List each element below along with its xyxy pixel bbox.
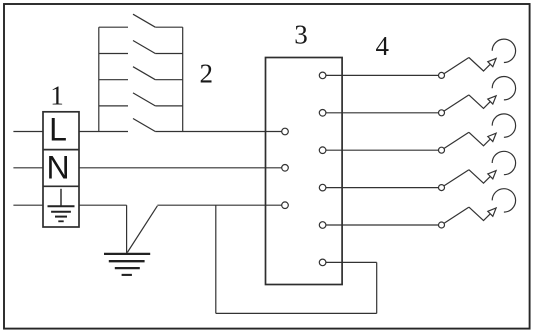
input terminal 3-L [282, 128, 289, 135]
load loop 1 [469, 39, 516, 71]
switch bank 2 left bus wire [98, 27, 100, 131]
switch 2-1 [99, 14, 183, 27]
input terminal 3-N [282, 165, 289, 172]
wire ground diagonal [127, 206, 157, 253]
svg-text:4: 4 [376, 31, 390, 61]
switch bank 2 right bus wire [182, 27, 184, 131]
load loop 2 [469, 77, 516, 109]
load loop 3 [469, 114, 516, 146]
switch 4-4 [439, 170, 469, 191]
terminal PE symbol [48, 189, 75, 222]
wire output 4 [326, 187, 438, 189]
label 4 [376, 31, 390, 61]
label 1 [50, 81, 64, 111]
label 3 [294, 20, 308, 50]
switch 4-3 [439, 132, 469, 153]
wire N row [13, 167, 281, 169]
terminal N [46, 149, 69, 185]
wire output 5 [326, 224, 438, 226]
input terminal 3-PE [282, 202, 289, 209]
terminal L [49, 112, 67, 148]
svg-text:1: 1 [50, 81, 64, 111]
wire return loop (PE row to output terminal 6) [216, 205, 377, 313]
switch 2-2 [99, 41, 183, 54]
svg-text:N: N [46, 149, 69, 185]
switch 4-2 [439, 95, 469, 116]
wire PE row [13, 204, 281, 206]
switch 4-1 [439, 58, 469, 79]
svg-text:2: 2 [200, 58, 214, 88]
output terminal 3-1 [319, 72, 326, 79]
output terminal 3-3 [319, 147, 326, 154]
wire L row [13, 131, 281, 133]
wire output 1 [326, 74, 438, 76]
load loop 5 [469, 189, 516, 221]
wire output 3 [326, 149, 438, 151]
svg-text:3: 3 [294, 20, 308, 50]
terminal block 1 [43, 112, 79, 227]
switch 2-4 [99, 93, 183, 106]
wire PE drop to ground [126, 205, 128, 253]
switch 4-5 [439, 207, 469, 228]
controller box 3 [266, 58, 343, 285]
load loop 4 [469, 151, 516, 183]
wire output 2 [326, 112, 438, 114]
switch 2-5 [133, 119, 155, 132]
label 2 [200, 58, 214, 88]
output terminal 3-4 [319, 184, 326, 191]
ground [104, 254, 150, 275]
output terminal 3-2 [319, 110, 326, 117]
svg-text:L: L [49, 112, 67, 148]
switch 2-3 [99, 67, 183, 80]
output terminal 3-5 [319, 222, 326, 229]
output terminal 3-6 [319, 259, 326, 266]
